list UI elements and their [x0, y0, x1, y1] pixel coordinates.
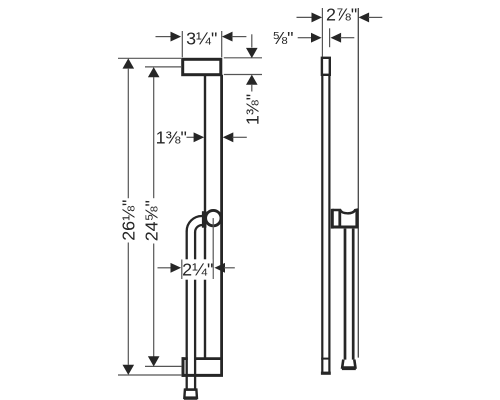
left arrowhead — [194, 132, 205, 142]
outlet block top edge — [182, 357, 224, 360]
left arrowhead — [312, 12, 323, 22]
svg-text:1⅜": 1⅜" — [243, 94, 263, 125]
extension line 5/8 (short) — [329, 28, 331, 47]
slider knob circle — [206, 210, 221, 225]
holder right edge — [355, 209, 358, 227]
right arrow tail — [368, 16, 382, 18]
upper stem — [153, 77, 155, 198]
slider holder bar — [202, 211, 207, 228]
left arrowhead — [171, 263, 182, 273]
hose nozzle top edge — [185, 388, 197, 390]
svg-text:2⅞": 2⅞" — [326, 4, 357, 24]
svg-text:26⅛": 26⅛" — [118, 200, 138, 241]
extension line top of bracket (left, for 26 1/8) — [118, 57, 181, 59]
extension line above bar — [321, 8, 323, 57]
top arrowhead — [148, 67, 160, 77]
left arrow tail — [298, 37, 313, 39]
outlet block left edge — [182, 357, 185, 377]
hose tube right edge — [194, 232, 196, 390]
svg-text:2¼": 2¼" — [182, 260, 213, 280]
holder left edge — [331, 209, 334, 229]
right arrowhead — [222, 32, 233, 42]
upper arrowhead pointing down — [246, 48, 258, 58]
hose connector thick bottom — [342, 367, 356, 370]
wall bracket — [183, 59, 221, 74]
rail right edge — [220, 75, 223, 376]
ext line left — [181, 31, 183, 57]
handle inner curve — [195, 225, 203, 232]
ext line right — [221, 31, 223, 57]
hose nozzle thick bottom — [184, 396, 197, 399]
bar top cap — [322, 58, 330, 75]
left arrow tail — [158, 267, 172, 269]
left arrowhead — [171, 32, 182, 42]
extension line bottom of block (left, for 26 1/8) — [118, 374, 181, 376]
hose left edge (front) — [344, 229, 347, 360]
bar bottom divider — [321, 358, 330, 360]
svg-text:3¼": 3¼" — [186, 29, 217, 49]
right tail — [232, 136, 246, 138]
right arrowhead — [359, 12, 370, 22]
rail left edge — [204, 75, 206, 359]
left arrowhead — [311, 33, 322, 43]
bottom arrowhead — [123, 365, 135, 375]
extension line bracket bottom (right, for vertical 1 3/8) — [224, 74, 262, 76]
short tail — [187, 136, 196, 138]
extension line top of rail (left, for 24 5/8) — [145, 66, 181, 68]
right arrow tail — [224, 267, 235, 269]
wall reference line — [357, 8, 359, 358]
hose connector — [342, 360, 355, 368]
lower arrowhead pointing up — [246, 75, 258, 85]
upper stem — [127, 68, 129, 198]
hose tube left edge — [186, 231, 188, 390]
hose tube white interior — [188, 238, 194, 389]
label 2 1/4 white backing — [183, 259, 213, 279]
holder top edge with cradle dip — [332, 210, 358, 214]
svg-text:1⅜": 1⅜" — [156, 128, 187, 148]
lower stem — [127, 243, 129, 365]
right arrowhead — [223, 132, 234, 142]
bar left edge — [321, 75, 323, 372]
holder divider — [338, 210, 341, 228]
bottom arrowhead — [148, 356, 160, 366]
hose right edge (front) — [352, 229, 355, 360]
upper stem — [251, 34, 253, 47]
bar right edge — [328, 75, 330, 372]
right ext line (from knob centre) — [212, 218, 214, 279]
lower stem — [153, 244, 155, 357]
top arrowhead — [123, 58, 135, 68]
left arrow tail — [297, 16, 313, 18]
right arrow tail — [340, 37, 354, 39]
outlet block bottom edge — [182, 374, 224, 377]
right arrowhead — [214, 263, 225, 273]
holder bottom edge — [331, 226, 358, 229]
left ext line — [181, 260, 183, 280]
left arrow tail — [156, 36, 172, 38]
right arrowhead — [331, 33, 342, 43]
bar bottom cap — [321, 372, 331, 375]
svg-text:⅝": ⅝" — [272, 28, 293, 48]
extension line bottom of rail (left, for 24 5/8) — [145, 365, 181, 367]
right arrow tail — [232, 36, 247, 38]
svg-text:24⅝": 24⅝" — [142, 200, 162, 241]
lower stem — [251, 85, 253, 92]
hose nozzle — [184, 390, 197, 398]
handle outer curve — [187, 216, 204, 231]
extension line bracket top (right, for vertical 1 3/8) — [224, 57, 262, 59]
